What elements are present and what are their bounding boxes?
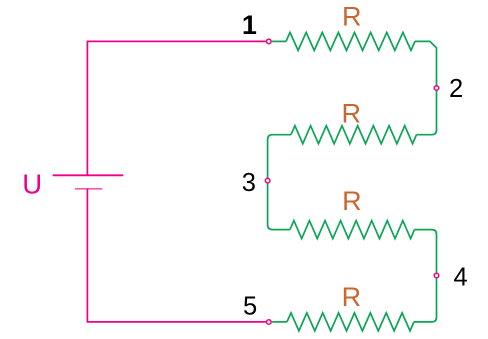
svg-text:R: R [342,282,362,312]
resistor R3 zigzag [290,221,415,239]
wire: node2 down, rounded corner, right stub of R2 [417,91,437,135]
wire: node5 stub into R4 [272,321,287,323]
resistor R4 zigzag [287,313,414,331]
node 1 terminal circle [267,39,272,44]
svg-text:2: 2 [449,75,463,103]
wire: R2 left stub, rounded corner, down to node 3 [268,135,291,178]
svg-text:1: 1 [242,10,257,40]
resistor R2 (between nodes 2 and 3) [268,91,437,178]
battery U: long (positive) plate [53,174,124,176]
svg-text:5: 5 [243,293,257,321]
svg-text:R: R [342,186,362,216]
node 4 terminal circle [434,273,439,278]
svg-text:R: R [342,2,362,32]
resistor R4 (between nodes 5 and 4) [272,278,437,331]
wire: R1 right stub, bevel corner, down to node 2 [415,41,437,85]
svg-text:4: 4 [454,263,468,291]
svg-text:U: U [22,169,42,200]
wire: R3 right stub, rounded corner, down to node 4 [415,230,437,273]
node 2 terminal circle [434,86,439,91]
resistor R2 zigzag [291,126,417,144]
wire: bottom magenta wire from battery - to node 5 [87,189,266,322]
resistor R1 zigzag [286,32,415,50]
resistor R3 (between nodes 3 and 4) [268,184,437,273]
resistor R1 (between nodes 1 and 2) [272,32,437,85]
svg-text:3: 3 [242,169,256,197]
svg-text:R: R [342,98,362,128]
wire: node1 stub into R1 [272,40,286,42]
node 5 terminal circle [267,320,272,325]
wire: R4 right stub, rounded corner, up to node 4 [414,278,437,322]
battery U: short (negative) plate [75,188,103,190]
wire: top magenta wire from battery + to node 1 [87,41,266,175]
wire: node3 down, rounded corner, left stub of R3 [268,184,290,230]
node 3 terminal circle [265,178,270,183]
